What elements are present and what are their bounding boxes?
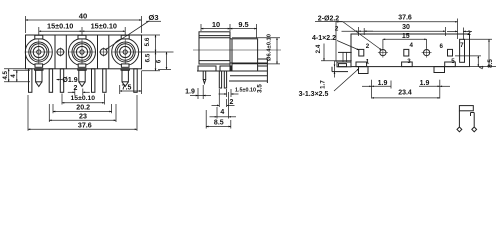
svg-text:37.6: 37.6	[398, 15, 412, 22]
svg-text:2-Ø2.2: 2-Ø2.2	[318, 15, 340, 22]
svg-text:9.5: 9.5	[238, 20, 248, 29]
svg-text:37.6: 37.6	[78, 121, 92, 129]
svg-text:8.5: 8.5	[487, 59, 494, 68]
svg-text:4.5: 4.5	[2, 70, 9, 79]
svg-text:1: 1	[366, 58, 370, 65]
svg-text:4: 4	[479, 65, 486, 69]
svg-text:10: 10	[212, 20, 220, 29]
svg-text:1.5±0.10: 1.5±0.10	[235, 88, 256, 94]
svg-text:2: 2	[230, 99, 234, 106]
svg-text:1.9: 1.9	[420, 80, 430, 87]
svg-text:40: 40	[79, 12, 87, 21]
svg-text:7.5: 7.5	[122, 85, 132, 92]
svg-text:23.4: 23.4	[398, 90, 412, 97]
svg-text:5: 5	[451, 58, 455, 65]
svg-text:2: 2	[366, 43, 370, 50]
svg-text:15±0.10: 15±0.10	[47, 21, 73, 30]
svg-text:1.9: 1.9	[378, 80, 388, 87]
svg-text:4-1×2.2: 4-1×2.2	[312, 35, 336, 42]
svg-text:15±0.10: 15±0.10	[91, 21, 117, 30]
svg-text:6.5: 6.5	[145, 53, 152, 62]
svg-text:6: 6	[439, 43, 443, 50]
svg-text:6: 6	[156, 59, 163, 63]
svg-text:8.5: 8.5	[214, 120, 224, 127]
svg-text:1.7: 1.7	[320, 80, 327, 89]
svg-text:23: 23	[79, 112, 87, 120]
svg-text:Ø6.4±0.10: Ø6.4±0.10	[267, 34, 273, 61]
svg-text:4: 4	[409, 42, 413, 49]
svg-text:Ø3: Ø3	[148, 13, 158, 22]
svg-text:2: 2	[74, 85, 78, 92]
svg-text:2: 2	[335, 26, 339, 33]
svg-text:7: 7	[460, 42, 464, 49]
svg-text:1.9: 1.9	[185, 88, 195, 95]
svg-text:3: 3	[407, 58, 411, 65]
svg-text:20.2: 20.2	[76, 104, 90, 112]
svg-text:5.6: 5.6	[144, 37, 151, 46]
svg-text:2.4: 2.4	[315, 44, 322, 53]
svg-text:3-1.3×2.5: 3-1.3×2.5	[299, 91, 329, 98]
svg-text:15±0.10: 15±0.10	[71, 95, 96, 102]
svg-text:15: 15	[402, 33, 410, 40]
svg-text:4: 4	[10, 74, 17, 78]
svg-text:Ø1.9: Ø1.9	[62, 77, 77, 84]
svg-text:4: 4	[220, 109, 224, 116]
svg-text:3.5: 3.5	[257, 84, 264, 93]
svg-text:2: 2	[467, 30, 471, 37]
svg-text:30: 30	[402, 24, 410, 31]
